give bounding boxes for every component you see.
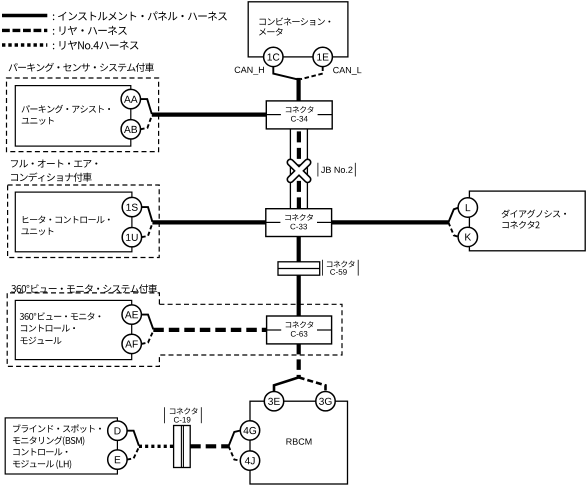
pin D bbox=[108, 421, 127, 440]
twisted pair symbol in JB No.2 bbox=[290, 162, 307, 179]
label C-59 connector line2 bbox=[330, 269, 347, 275]
pin 3E bbox=[264, 392, 283, 411]
wire: pin D stub to junction (solid) bbox=[127, 431, 139, 446]
wire: connector C-33 to diagnosis split (instrument panel harness) bbox=[332, 220, 449, 224]
legend label: instrument panel harness bbox=[53, 11, 227, 20]
option outline: parking sensor system (dashed box) bbox=[7, 78, 159, 152]
label: combination meter line2 bbox=[259, 28, 283, 36]
option outline: 360 view tunnel around C-63 (dashed, open left) bbox=[159, 304, 342, 355]
pin 1U bbox=[122, 228, 141, 247]
wire: pin AE stub to junction (solid) bbox=[141, 315, 153, 330]
connector C-63 box bbox=[267, 316, 332, 344]
wire: split to pin 3G (dashed) bbox=[299, 377, 326, 391]
label bracket left for C-19 bbox=[164, 407, 166, 423]
option label: with 360 view monitor system bbox=[11, 284, 157, 293]
wire: pin 1S stub to junction (solid) bbox=[142, 207, 153, 222]
pin 1C bbox=[264, 47, 283, 66]
label: parking assist unit line2 bbox=[22, 117, 54, 125]
module box: 360 view monitor control module bbox=[15, 300, 131, 359]
module box: parking assist unit bbox=[15, 86, 131, 147]
net label CAN_H bbox=[235, 67, 264, 75]
wire: pin AF stub to junction (dashed) bbox=[141, 331, 153, 344]
module box: blind spot monitoring control module bbox=[5, 418, 117, 474]
pin 3G bbox=[316, 392, 335, 411]
wire: twisted pair heater control to connector C-33 (instrument panel harness) bbox=[152, 220, 265, 224]
label RBCM bbox=[286, 438, 311, 444]
label C-59 connector line1 bbox=[327, 261, 355, 268]
legend swatch: instrument panel harness (thick solid) bbox=[2, 14, 47, 17]
connector C-59 symbol bbox=[278, 262, 320, 275]
wire: BSM pair to connector C-19 (rear No.4 harness dotted) bbox=[139, 445, 174, 448]
label: heater control unit line2 bbox=[21, 228, 53, 236]
module box: heater control unit bbox=[15, 192, 132, 252]
label bracket right for C-19 bbox=[200, 407, 202, 423]
label: combination meter line1 bbox=[259, 18, 330, 26]
label C-19 connector line2 bbox=[174, 417, 191, 423]
label bracket left for C-59 bbox=[322, 260, 324, 276]
label: parking assist unit line1 bbox=[22, 105, 110, 113]
label: 360 view module line3 bbox=[20, 337, 61, 345]
wire: C-59 to C-63 (instrument panel harness) bbox=[297, 275, 301, 316]
net label CAN_L bbox=[333, 67, 361, 75]
pin K bbox=[458, 227, 477, 246]
pin AE bbox=[122, 305, 141, 324]
pin AA bbox=[121, 89, 140, 108]
wire: twisted pair 360 module to connector C-63 (rear harness dashed) bbox=[153, 328, 266, 332]
wire: C-19 to RBCM split (rear harness dashed) bbox=[190, 444, 228, 448]
label bracket right for C-59 bbox=[357, 260, 359, 276]
pin AF bbox=[122, 334, 141, 353]
connector C-19 symbol bbox=[174, 426, 191, 468]
option outline: full auto air conditioner (dashed box) bbox=[8, 185, 160, 258]
legend label: rear harness bbox=[53, 26, 127, 35]
pin E bbox=[108, 450, 127, 469]
label bracket left for JB No.2 bbox=[317, 163, 319, 177]
junction block JB No.2 left wall bbox=[289, 129, 291, 209]
wire: C-33 to C-59 (instrument panel harness) bbox=[297, 237, 301, 262]
legend swatch: rear harness (thick dashed) bbox=[2, 29, 47, 32]
wire: pin AB stub to junction (dashed) bbox=[140, 115, 152, 129]
wire: pin AA stub to junction (solid) bbox=[140, 99, 151, 114]
wire: pin 1E to CAN junction (CAN_L dashed) bbox=[301, 67, 323, 80]
wire: pin 1U stub to junction (dashed) bbox=[142, 223, 153, 237]
pin 4J bbox=[240, 451, 259, 470]
option label: with full auto air conditioner line2 bbox=[11, 173, 92, 182]
junction block JB No.2 right wall bbox=[306, 129, 308, 209]
pin 4G bbox=[240, 421, 259, 440]
wire: CAN pair junction down to connector C-34 bbox=[297, 78, 301, 101]
label: 360 view module line1 bbox=[20, 312, 101, 320]
option label: with parking sensor system bbox=[9, 63, 154, 72]
label: BSM line2 bbox=[13, 436, 84, 445]
label: diagnosis connector 2 line1 bbox=[502, 210, 566, 218]
legend swatch: rear No.4 harness (thick dotted) bbox=[2, 43, 47, 46]
label C-19 connector line1 bbox=[170, 408, 198, 415]
wire: pin E stub to junction (dashed) bbox=[127, 447, 139, 460]
wire: C-63 down to RBCM split (rear harness dashed) bbox=[297, 344, 301, 378]
pin 1S bbox=[122, 197, 141, 216]
label: diagnosis connector 2 line2 bbox=[502, 221, 539, 229]
wire: twisted pair parking assist to connector C-34 (instrument panel harness) bbox=[152, 112, 266, 116]
legend label: rear No.4 harness bbox=[53, 41, 139, 50]
label JB No.2 bbox=[321, 167, 352, 173]
module box: diagnosis connector 2 bbox=[469, 191, 585, 251]
wire: split to pin K (dashed) bbox=[448, 222, 458, 236]
wire: split to pin 4G (solid) bbox=[229, 431, 241, 447]
label: BSM line4 bbox=[13, 460, 71, 469]
connector C-33 box bbox=[266, 209, 332, 237]
pin L bbox=[458, 198, 477, 217]
option outline: 360 view monitor system (dashed, open right) bbox=[7, 293, 159, 367]
connector C-34 box bbox=[266, 101, 332, 129]
wire: pin 1C to CAN junction (CAN_H solid) bbox=[273, 67, 296, 80]
wire: split to pin L (solid) bbox=[448, 208, 458, 223]
label: heater control unit line1 bbox=[23, 216, 110, 224]
module box: RBCM bbox=[250, 401, 348, 484]
option label: with full auto air conditioner line1 bbox=[11, 160, 97, 168]
label bracket right for JB No.2 bbox=[354, 163, 356, 177]
wire: split to pin 4J (dashed) bbox=[229, 446, 241, 461]
module box: combination meter bbox=[248, 2, 348, 57]
label: 360 view module line2 bbox=[21, 325, 75, 332]
pin AB bbox=[121, 120, 140, 139]
label: BSM line1 bbox=[13, 424, 101, 432]
label: BSM line3 bbox=[13, 448, 67, 455]
wire: C-34 to C-33 through JB No.2 (rear harness dashed) bbox=[297, 129, 301, 209]
wire: split to pin 3E (solid) bbox=[274, 377, 299, 391]
pin 1E bbox=[313, 47, 332, 66]
